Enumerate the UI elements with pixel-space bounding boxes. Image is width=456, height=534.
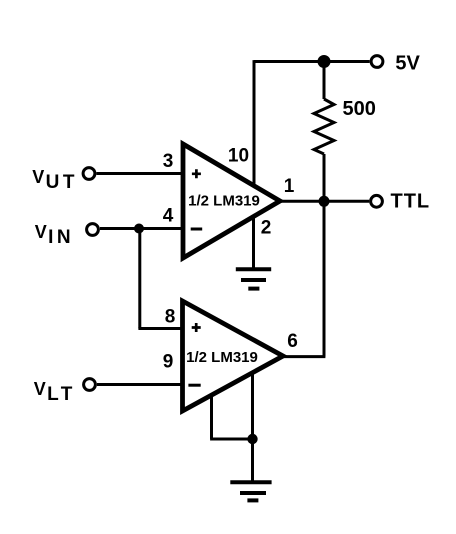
svg-text:2: 2	[261, 218, 272, 239]
svg-text:5V: 5V	[395, 53, 420, 75]
svg-text:6: 6	[287, 331, 298, 352]
svg-text:1/2 LM319: 1/2 LM319	[188, 193, 260, 210]
svg-text:1: 1	[284, 176, 295, 197]
svg-text:TTL: TTL	[391, 191, 431, 213]
svg-text:10: 10	[228, 146, 249, 167]
svg-text:8: 8	[165, 307, 176, 328]
svg-text:1/2 LM319: 1/2 LM319	[186, 349, 258, 366]
svg-text:4: 4	[163, 206, 174, 227]
svg-text:9: 9	[163, 352, 174, 373]
svg-text:500: 500	[343, 98, 376, 120]
svg-text:3: 3	[163, 151, 174, 172]
